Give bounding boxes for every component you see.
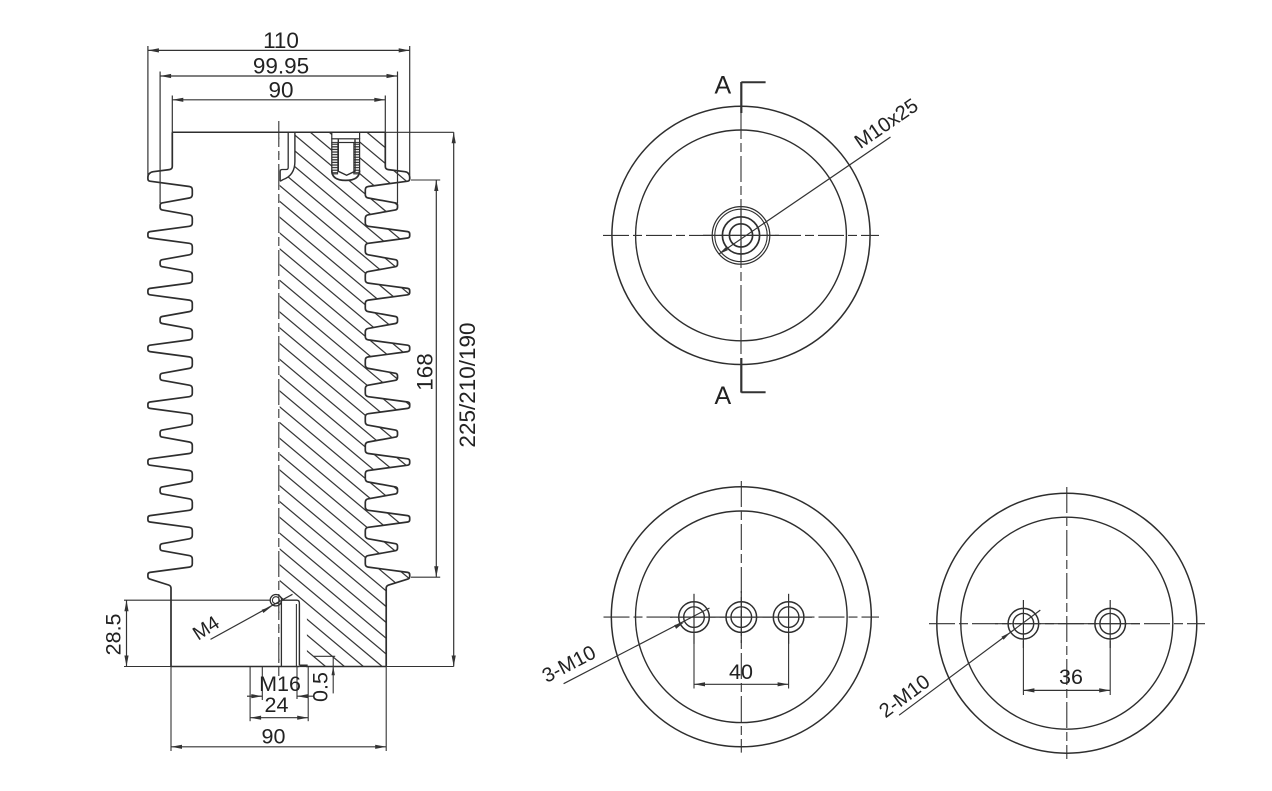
top view: hub recess circles [712, 207, 770, 265]
bottom-middle: horizontal centerline [604, 616, 880, 618]
dimension 24 [249, 667, 251, 721]
svg-text:28.5: 28.5 [102, 613, 126, 655]
M4 leader line and label [211, 594, 293, 639]
3-M10 leader and label [564, 608, 710, 684]
bottom-middle view: outer circle [611, 487, 871, 747]
cap center recess outlines [280, 132, 295, 181]
white knockout: M16 hole region bottom [280, 600, 300, 666]
white knockout: threaded insert pocket [332, 133, 360, 181]
dimension M16 [261, 667, 263, 700]
dimension 110 [148, 49, 410, 51]
dimension 99.95 [160, 75, 397, 77]
dimension 90 (bottom) [170, 667, 172, 751]
bottom-middle: hole tick centerlines [693, 594, 695, 644]
dimension 168 (right) [411, 179, 440, 181]
top view: outer circle dia 110 [612, 106, 870, 364]
M10x25 leader and label [719, 137, 891, 254]
section cut line A-A bottom [740, 358, 742, 393]
top view: inner circle dia 90 [636, 130, 847, 341]
2-M10 leader and label [899, 610, 1040, 715]
bottom-right: horizontal centerline [929, 623, 1205, 625]
first-shed edge lines at cap level (both sides) + dim extension lines above [147, 46, 149, 175]
top view: horizontal centerline [603, 234, 879, 236]
svg-text:40: 40 [729, 660, 753, 684]
bottom-right view: 2 x M10 holes [1008, 608, 1039, 639]
svg-text:168: 168 [413, 353, 438, 391]
bottom-middle: vertical centerline [740, 481, 742, 753]
insulator body: right sectioned profile with sheds [365, 132, 409, 666]
top face line (object + extension to 225 dim) [172, 131, 385, 133]
M4 screw circle at joint [270, 595, 281, 606]
svg-text:99.95: 99.95 [253, 53, 309, 78]
dimension 90 (top) [172, 99, 385, 101]
dimension 36 [1022, 641, 1024, 695]
svg-text:A: A [714, 382, 731, 410]
svg-text:225/210/190: 225/210/190 [455, 322, 480, 447]
dimension 28.5 (bottom left) [124, 666, 171, 668]
svg-text:90: 90 [262, 725, 286, 749]
bottom-right view: inner circle [961, 517, 1173, 729]
bottom-middle view: 3 x M10 holes [679, 602, 710, 633]
svg-text:90: 90 [268, 77, 293, 102]
dimension 0.5 [314, 655, 335, 657]
svg-text:36: 36 [1059, 665, 1083, 689]
svg-text:0.5: 0.5 [309, 672, 333, 702]
svg-text:110: 110 [263, 28, 299, 53]
M16 hole left edge [280, 601, 282, 667]
insulator body: left outline profile with sheds [148, 132, 192, 666]
dimension 40 [693, 635, 695, 689]
top view: vertical centerline [740, 113, 742, 358]
bottom-middle view: inner circle [636, 511, 848, 723]
bottom-right view: outer circle [937, 493, 1197, 753]
bottom-right: vertical centerline [1066, 487, 1068, 759]
bottom-right: hole tick centerlines [1022, 600, 1024, 648]
white knockout: top center recess notch [280, 132, 295, 181]
section cut line A-A top [740, 82, 742, 113]
centerline of left view [278, 121, 280, 677]
bottom metal fitting joint line + M16 boss [124, 599, 270, 601]
dimension 225/210/190 (right) [453, 132, 455, 666]
top view: insert hole circles M10 [722, 217, 759, 254]
bottom face line with 0.5 step (object + extensions) [124, 666, 171, 668]
svg-text:24: 24 [265, 693, 289, 717]
svg-text:A: A [714, 72, 731, 100]
